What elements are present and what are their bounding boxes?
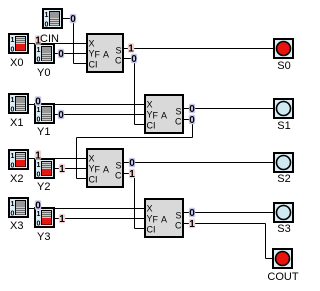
- svg-text:0: 0: [58, 110, 64, 121]
- svg-text:C: C: [175, 117, 182, 127]
- svg-text:X0: X0: [10, 57, 23, 69]
- svg-text:S: S: [115, 161, 121, 171]
- svg-text:0: 0: [11, 163, 15, 170]
- svg-text:0: 0: [11, 47, 15, 54]
- value 0 on U3 S wire: [129, 158, 135, 169]
- svg-text:X: X: [89, 39, 95, 49]
- wire U2 S to S1: [184, 108, 273, 110]
- wire U1 S to S0: [124, 48, 273, 50]
- svg-text:COUT: COUT: [267, 271, 298, 283]
- svg-text:0: 0: [189, 115, 195, 126]
- wire U3 C to U4 CI: [124, 174, 144, 229]
- wire Y2 to U3 Y: [55, 168, 86, 170]
- wire X2 to U3 X: [29, 158, 86, 160]
- svg-text:1: 1: [11, 201, 15, 208]
- svg-text:1: 1: [11, 153, 15, 160]
- LED S1: [274, 99, 293, 118]
- switch Y2: [35, 159, 54, 179]
- svg-text:1: 1: [37, 47, 41, 54]
- wire Y1 to U2 Y: [55, 114, 144, 116]
- svg-text:X: X: [147, 204, 153, 214]
- switch X0: [9, 34, 28, 54]
- svg-text:0: 0: [11, 211, 15, 218]
- svg-text:FA: FA: [95, 165, 113, 175]
- svg-text:1: 1: [45, 12, 49, 19]
- svg-text:S3: S3: [277, 223, 290, 235]
- svg-text:1: 1: [37, 211, 41, 218]
- value 0 on CIN wire: [70, 14, 76, 25]
- svg-text:0: 0: [70, 14, 76, 25]
- svg-text:X: X: [89, 154, 95, 164]
- svg-text:1: 1: [128, 43, 134, 54]
- wire U1 C to U2 CI: [124, 59, 144, 125]
- value 0 on U2 S wire: [189, 104, 195, 115]
- svg-text:1: 1: [129, 169, 135, 180]
- LED COUT: [273, 249, 292, 268]
- svg-text:0: 0: [35, 96, 41, 107]
- svg-text:0: 0: [11, 107, 15, 114]
- svg-text:CI: CI: [89, 175, 98, 185]
- wire Y0 to U1 Y: [55, 53, 86, 55]
- value 0 on Y1 wire: [58, 110, 64, 121]
- value 1 on X0 wire: [35, 35, 41, 46]
- svg-text:1: 1: [11, 37, 15, 44]
- svg-text:0: 0: [58, 49, 64, 60]
- svg-text:1: 1: [189, 219, 195, 230]
- svg-text:FA: FA: [153, 215, 171, 225]
- svg-text:S1: S1: [277, 120, 290, 132]
- value 0 on U2 C wire: [189, 115, 195, 126]
- svg-text:0: 0: [37, 221, 41, 228]
- svg-text:X1: X1: [10, 117, 23, 129]
- svg-text:0: 0: [45, 22, 49, 29]
- value 1 on X2 wire: [35, 150, 41, 161]
- svg-text:S: S: [115, 46, 121, 56]
- full adder U1 (FA): [87, 34, 123, 72]
- LED S0: [274, 39, 293, 58]
- LED S2: [274, 153, 293, 172]
- svg-text:0: 0: [37, 57, 41, 64]
- switch X2: [9, 150, 28, 170]
- value 1 on Y3 wire: [59, 214, 65, 225]
- svg-text:0: 0: [37, 172, 41, 179]
- svg-text:CIN: CIN: [40, 33, 59, 45]
- wire U2 C to U3 CI: [77, 120, 193, 179]
- full adder U3 (FA): [87, 149, 123, 187]
- switch CIN: [43, 9, 62, 29]
- svg-text:C: C: [115, 171, 122, 181]
- LED S3: [274, 203, 293, 222]
- svg-text:1: 1: [59, 164, 65, 175]
- wire CIN to U1 CI: [63, 19, 86, 64]
- svg-text:0: 0: [189, 208, 195, 219]
- switch X3: [9, 198, 28, 218]
- svg-text:CI: CI: [147, 225, 156, 235]
- value 1 on U4 C wire: [189, 219, 195, 230]
- switch X1: [9, 94, 28, 114]
- svg-text:0: 0: [35, 200, 41, 211]
- value 0 on U4 S wire: [189, 208, 195, 219]
- svg-text:Y1: Y1: [37, 126, 50, 138]
- svg-text:X2: X2: [10, 173, 23, 185]
- svg-text:1: 1: [59, 214, 65, 225]
- value 0 on Y0 wire: [58, 49, 64, 60]
- svg-text:S: S: [175, 107, 181, 117]
- svg-text:1: 1: [35, 150, 41, 161]
- switch Y3: [35, 208, 54, 228]
- value 0 on X3 wire: [35, 200, 41, 211]
- switch Y1: [35, 104, 54, 124]
- svg-text:S2: S2: [277, 173, 290, 185]
- svg-text:Y3: Y3: [37, 231, 50, 243]
- full adder U4 (FA): [145, 199, 183, 237]
- svg-text:FA: FA: [153, 111, 171, 121]
- value 0 on U1 C wire: [131, 54, 137, 65]
- svg-text:0: 0: [189, 104, 195, 115]
- value 1 on U1 S wire: [128, 43, 134, 54]
- wire U4 C to COUT: [184, 224, 272, 259]
- svg-text:S0: S0: [277, 60, 290, 72]
- svg-text:1: 1: [37, 162, 41, 169]
- wire X0 to U1 X: [29, 43, 86, 45]
- svg-text:0: 0: [131, 54, 137, 65]
- wire Y3 to U4 Y: [55, 218, 144, 220]
- svg-text:CI: CI: [89, 60, 98, 70]
- svg-text:1: 1: [37, 107, 41, 114]
- svg-text:S: S: [175, 211, 181, 221]
- wire X1 to U2 X: [29, 104, 144, 106]
- svg-text:C: C: [175, 221, 182, 231]
- svg-text:0: 0: [129, 158, 135, 169]
- wire U3 S to S2: [124, 162, 273, 164]
- value 0 on X1 wire: [35, 96, 41, 107]
- switch Y0: [35, 44, 54, 64]
- svg-text:X: X: [147, 100, 153, 110]
- svg-text:0: 0: [37, 117, 41, 124]
- value 1 on U3 C wire: [129, 169, 135, 180]
- svg-text:Y2: Y2: [37, 181, 50, 193]
- wire X3 to U4 X: [29, 208, 144, 210]
- wire U4 S to S3: [184, 212, 273, 214]
- svg-text:Y0: Y0: [37, 67, 50, 79]
- svg-text:X3: X3: [10, 220, 23, 232]
- svg-text:CI: CI: [147, 121, 156, 131]
- full adder U2 (FA): [145, 95, 183, 133]
- value 1 on Y2 wire: [59, 164, 65, 175]
- svg-text:C: C: [115, 56, 122, 66]
- svg-text:1: 1: [11, 97, 15, 104]
- svg-text:FA: FA: [95, 50, 113, 60]
